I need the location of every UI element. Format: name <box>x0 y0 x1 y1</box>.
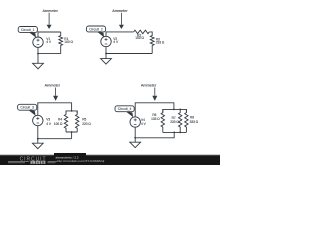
svg-text:Circuit_3: Circuit_3 <box>20 106 34 110</box>
annotation tag Circuit_4 <box>126 111 134 117</box>
resistor R7 <box>179 109 182 132</box>
svg-text:Ammeter: Ammeter <box>141 84 157 88</box>
CircuitLab logo: right lines <box>48 162 58 163</box>
node: C4 bottom R7 tee <box>179 132 181 134</box>
wire: C2 ground stub <box>105 54 107 59</box>
wire: C2 top rail right of R2 <box>149 31 152 33</box>
annotation tag Circuit_3 <box>28 110 36 116</box>
svg-text:Circuit_4: Circuit_4 <box>118 107 132 111</box>
voltage source V2 <box>101 36 111 46</box>
svg-text:Circuit_1: Circuit_1 <box>21 28 35 32</box>
wire: C4 bottom rail <box>135 127 174 138</box>
wire: C3 top bar <box>66 111 77 113</box>
svg-text:100 Ω: 100 Ω <box>54 122 63 126</box>
wire: C3 bottom bar <box>66 132 77 139</box>
wire: C2 top rail left of R2 <box>106 32 134 36</box>
CircuitLab logo: LAB boxes <box>30 161 35 164</box>
wire: C4 bottom bar <box>163 131 187 133</box>
wire: C3 ground stub <box>37 139 39 144</box>
attribution pill behind author line <box>54 153 86 157</box>
svg-text:Circuit_2: Circuit_2 <box>89 27 103 31</box>
annotation tag Circuit_2 <box>97 31 104 37</box>
svg-text:R5: R5 <box>82 117 86 121</box>
wire: C3 bottom rail <box>38 126 72 139</box>
svg-text:Ammeter: Ammeter <box>45 84 61 88</box>
node: C3 top bar tee <box>71 110 73 112</box>
resistor R8 <box>185 109 188 132</box>
svg-text:4 V: 4 V <box>113 40 119 44</box>
svg-text:233 Ω: 233 Ω <box>156 41 165 45</box>
resistor R2 (horizontal) <box>134 30 150 34</box>
wire: C1 top rail <box>38 32 61 37</box>
svg-text:233 Ω: 233 Ω <box>170 120 179 124</box>
node: C4 ground junction <box>134 137 136 139</box>
voltage source V4 <box>130 117 140 127</box>
svg-text:Ammeter: Ammeter <box>112 9 128 13</box>
node: C4 top feed tee <box>173 109 175 111</box>
resistor R1 <box>59 32 63 54</box>
wire: C1 bottom rail <box>38 47 61 53</box>
node: C4 top R7 tee <box>179 109 181 111</box>
svg-text:R4: R4 <box>58 117 62 121</box>
svg-text:Ammeter: Ammeter <box>42 9 58 13</box>
ground: C2 <box>101 59 112 65</box>
attribution bar strip <box>0 155 220 165</box>
resistor R5 <box>76 111 79 132</box>
svg-text:http://circuitlab.com/c5TJcr9b: http://circuitlab.com/c5TJcr9b682qf <box>57 159 104 163</box>
node: C4 bottom feed tee <box>173 132 175 134</box>
wire: C4 top rail <box>135 103 174 117</box>
ground: C4 <box>130 142 141 147</box>
node: C3 ground junction <box>37 138 39 140</box>
svg-text:333 Ω: 333 Ω <box>190 120 199 124</box>
svg-text:4 V: 4 V <box>46 122 52 126</box>
svg-text:220 Ω: 220 Ω <box>82 122 91 126</box>
svg-text:100 Ω: 100 Ω <box>135 36 144 40</box>
CircuitLab logo: left lines <box>8 162 29 163</box>
wire: C2 bottom rail <box>106 47 152 54</box>
voltage source V3 <box>33 115 43 125</box>
wire: C3 top rail <box>38 103 72 116</box>
svg-text:4 V: 4 V <box>141 122 147 126</box>
wire: C1 ground stub <box>37 54 39 64</box>
resistor R4 <box>64 111 67 132</box>
svg-text:133 Ω: 133 Ω <box>151 117 160 121</box>
svg-text:4 V: 4 V <box>46 40 52 44</box>
node: C3 bottom bar tee <box>71 131 73 133</box>
wire: C4 ground stub <box>134 138 136 142</box>
node: C1 ground junction <box>37 53 39 55</box>
resistor R6 <box>161 109 164 132</box>
svg-text:V3: V3 <box>46 118 50 122</box>
wire: C4 top bar <box>163 109 187 112</box>
node: C2 ground junction <box>105 53 107 55</box>
annotation tag Circuit_1 <box>29 32 37 38</box>
ground: C3 <box>32 143 43 149</box>
ground: C1 <box>33 63 44 69</box>
svg-text:100 Ω: 100 Ω <box>64 40 73 44</box>
voltage source V1 <box>33 37 43 47</box>
resistor R3 <box>150 32 154 54</box>
svg-text:L: L <box>32 160 34 164</box>
